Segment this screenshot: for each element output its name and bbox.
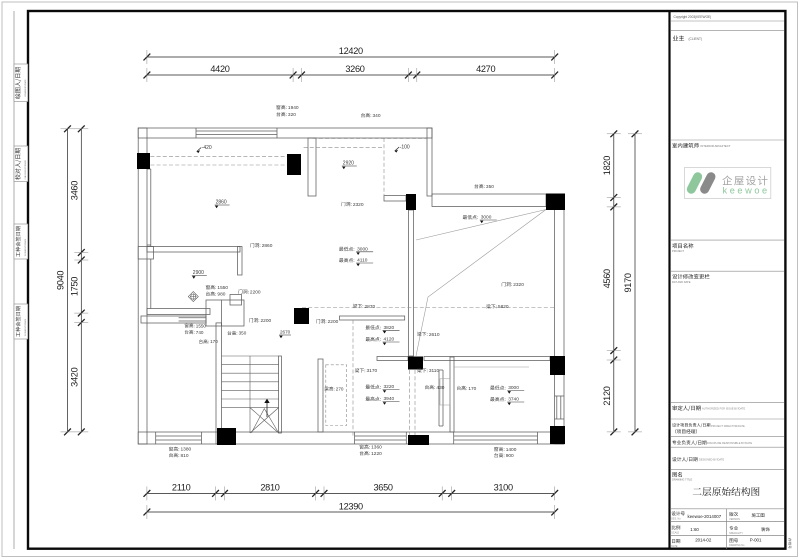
svg-text:2110: 2110 [172,483,191,493]
svg-text:DRAWN BY/DATE: DRAWN BY/DATE [24,79,27,97]
svg-text:2920: 2920 [343,161,354,167]
svg-text:(CLIENT): (CLIENT) [689,37,702,41]
svg-text:5820: 5820 [498,304,509,310]
svg-text:keewoe: keewoe [723,186,770,196]
svg-text:3420: 3420 [69,367,79,386]
svg-text:CHECKED BY/DATE: CHECKED BY/DATE [24,159,27,179]
svg-text:4110: 4110 [357,258,368,264]
svg-text:3220: 3220 [384,384,395,390]
svg-text:3000: 3000 [481,215,492,221]
svg-text:DAT AND DATE: DAT AND DATE [672,280,691,284]
svg-text:SPECIALITY: SPECIALITY [729,532,743,535]
svg-text:1400: 1400 [506,447,517,453]
svg-text:170: 170 [210,339,218,344]
svg-text:1750: 1750 [69,277,79,296]
svg-text:2120: 2120 [602,386,612,405]
svg-text:SIGNED BY/DATE: SIGNED BY/DATE [24,238,27,256]
svg-text:4270: 4270 [476,64,495,74]
svg-text:VERSION: VERSION [729,518,740,521]
svg-text:DATE: DATE [671,545,678,548]
svg-text:2320: 2320 [513,282,524,288]
svg-text:DRAWING TITLE: DRAWING TITLE [672,478,692,482]
svg-text:12420: 12420 [339,46,363,56]
svg-text:4120: 4120 [384,337,395,343]
svg-text:900: 900 [506,453,514,459]
svg-text:9040: 9040 [56,271,66,290]
svg-text:4560: 4560 [602,269,612,288]
svg-text:2900: 2900 [193,270,204,276]
svg-text:3110: 3110 [429,368,440,374]
svg-text:3260: 3260 [345,64,364,74]
svg-text:-100: -100 [400,145,410,151]
svg-text:1220: 1220 [371,451,382,457]
svg-text:9170: 9170 [623,273,633,292]
svg-text:170: 170 [468,386,476,392]
svg-text:12390: 12390 [339,502,363,512]
svg-text:2860: 2860 [262,243,273,249]
svg-text:2610: 2610 [429,332,440,338]
svg-text:1380: 1380 [181,447,192,453]
svg-text:2200: 2200 [250,289,261,295]
svg-text:980: 980 [217,292,225,298]
svg-text:2870: 2870 [365,304,376,310]
svg-text:2810: 2810 [260,483,279,493]
svg-text:810: 810 [181,453,189,459]
svg-text:3000: 3000 [508,385,519,391]
svg-text:340: 340 [373,113,381,119]
svg-text:2320: 2320 [353,202,364,208]
svg-text:1:60: 1:60 [690,527,699,532]
svg-text:3650: 3650 [373,483,392,493]
svg-text:2014-02: 2014-02 [695,538,712,543]
svg-text:4420: 4420 [210,64,229,74]
svg-text:3460: 3460 [69,181,79,200]
svg-text:350: 350 [486,184,494,190]
svg-text:1940: 1940 [288,105,299,111]
svg-text:3940: 3940 [384,396,395,402]
svg-text:SIGNED BY/DATE: SIGNED BY/DATE [24,318,27,336]
svg-text:PROJECT DIRECTOR/DATE: PROJECT DIRECTOR/DATE [711,424,745,428]
svg-text:DES. No: DES. No [671,518,681,521]
svg-text:3170: 3170 [367,368,378,374]
svg-text:INTERIOR ARCHITECT: INTERIOR ARCHITECT [701,144,731,148]
svg-text:3100: 3100 [494,483,513,493]
svg-text:DESIGNED BY/DATE: DESIGNED BY/DATE [699,458,724,462]
svg-text:430: 430 [436,385,444,391]
svg-text:2670: 2670 [280,330,291,335]
svg-text:AUTHORIZED FOR ISSUE BY/DATE: AUTHORIZED FOR ISSUE BY/DATE [702,407,745,411]
svg-text:DRAWING No: DRAWING No [729,544,745,547]
svg-text:740: 740 [196,330,204,335]
svg-text:1550: 1550 [196,323,207,328]
svg-text:SCALE: SCALE [671,531,679,534]
svg-text:270: 270 [336,386,344,391]
svg-text:3740: 3740 [508,397,519,403]
svg-text:3000: 3000 [357,246,368,252]
svg-text:2200: 2200 [261,318,272,324]
svg-text:-420: -420 [202,145,212,151]
svg-text:PROJECT: PROJECT [672,249,685,253]
svg-text:Copyright 2003(KEEWOE): Copyright 2003(KEEWOE) [674,15,712,19]
svg-text:1360: 1360 [371,445,382,451]
svg-text:1820: 1820 [602,156,612,175]
svg-text:keewoe-2014007: keewoe-2014007 [688,514,722,519]
svg-text:320: 320 [288,112,296,118]
svg-text:DISCIPLINE RESPONSIBLE BY/DATE: DISCIPLINE RESPONSIBLE BY/DATE [707,441,752,445]
svg-text:1550: 1550 [217,285,228,291]
svg-text:350: 350 [239,331,247,336]
svg-text:3820: 3820 [384,325,395,331]
svg-text:P-001: P-001 [750,538,762,543]
svg-text:2200: 2200 [328,319,339,325]
svg-text:2860: 2860 [216,200,227,206]
